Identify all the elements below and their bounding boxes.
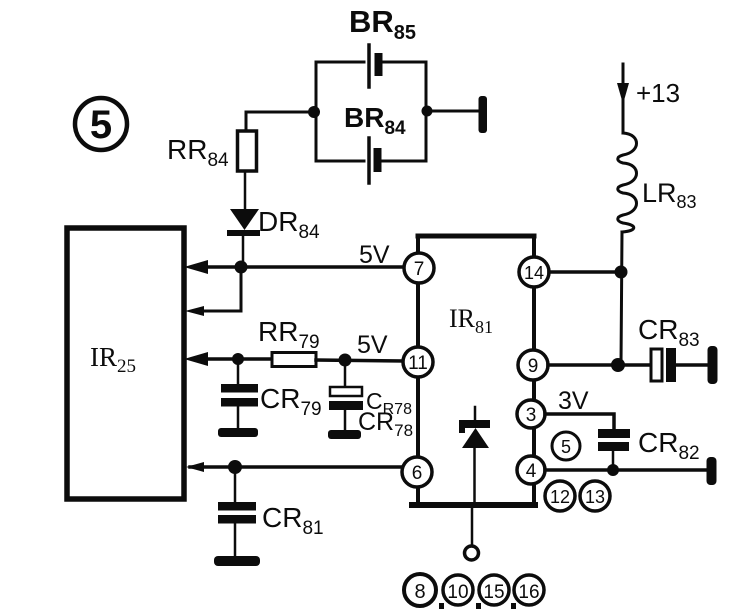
svg-text:BR84: BR84 — [344, 102, 406, 139]
svg-text:11: 11 — [408, 353, 428, 374]
IC IR25 — [67, 228, 184, 499]
wire 5V line to pin 7 — [198, 265, 404, 269]
node junction CR81 — [228, 460, 242, 474]
svg-text:CR83: CR83 — [638, 314, 700, 351]
capacitor CR79 — [221, 359, 258, 428]
terminal bar right of CR83 — [708, 346, 718, 384]
svg-text:BR85: BR85 — [349, 4, 416, 44]
battery BR85 — [369, 45, 383, 87]
wire battery loop top-left segment — [316, 61, 364, 64]
node junction CR78 — [339, 354, 352, 367]
node junction CR83 — [611, 358, 625, 372]
wire IR81 bottom tap — [471, 505, 474, 546]
node junction CR82/pin4 — [607, 464, 619, 476]
terminal bar right of pin 4 — [707, 457, 717, 485]
svg-text:3V: 3V — [558, 387, 589, 415]
svg-text:5V: 5V — [357, 331, 388, 359]
ground below CR81 — [214, 556, 260, 566]
svg-text:5: 5 — [561, 437, 571, 457]
arrow into IR25 second — [185, 306, 204, 316]
svg-text:5V: 5V — [359, 241, 390, 269]
capacitor CR83 — [651, 348, 708, 382]
circled pin note 13 — [580, 481, 610, 511]
wire DR84 to node A — [242, 236, 245, 264]
svg-text:6: 6 — [412, 463, 423, 484]
wire pin 3 to CR82 — [545, 414, 614, 429]
svg-text:9: 9 — [528, 356, 539, 377]
svg-text:8: 8 — [414, 581, 425, 603]
svg-text:RR84: RR84 — [167, 134, 229, 171]
pin 14 — [519, 257, 549, 287]
svg-text:12: 12 — [550, 487, 570, 507]
pin 9 — [518, 350, 548, 380]
svg-text:13: 13 — [585, 487, 605, 507]
resistor RR79 — [272, 353, 316, 367]
arrow into IR25 third — [184, 352, 208, 366]
capacitor CR81 — [218, 467, 256, 556]
svg-text:16: 16 — [518, 582, 539, 603]
pin 3 — [517, 400, 545, 428]
svg-text:CR82: CR82 — [638, 427, 700, 464]
svg-text:14: 14 — [524, 263, 544, 283]
node A junction on 5V wire — [235, 261, 248, 274]
wire from battery loop to RR84 — [246, 112, 314, 132]
capacitor CR78 — [329, 360, 363, 430]
svg-text:DR84: DR84 — [258, 206, 320, 243]
node junction CR79 — [232, 353, 244, 365]
inductor LR83 — [618, 133, 637, 232]
capacitor CR82 — [598, 429, 630, 470]
ground below CR79 — [218, 428, 258, 437]
IC IR81 box — [412, 236, 535, 505]
svg-text:7: 7 — [414, 259, 425, 280]
pin 7 — [404, 253, 434, 283]
circled pin note 16 — [514, 575, 544, 605]
pin 11 — [403, 347, 433, 377]
circled pin note 5 — [552, 432, 580, 460]
resistor RR84 — [238, 131, 257, 171]
arrow on +13 lead — [617, 83, 629, 104]
arrow into IR25 bottom — [186, 462, 204, 472]
supply +13 lead — [622, 64, 625, 133]
node junction pin14/supply — [615, 266, 628, 279]
svg-text:4: 4 — [526, 461, 537, 482]
wire battery loop left side — [315, 62, 318, 161]
open terminal circle — [465, 546, 479, 560]
wire battery loop bottom-right segment — [381, 160, 426, 163]
circled pin note 15 — [479, 575, 509, 605]
svg-text:3: 3 — [526, 405, 537, 426]
svg-text:10: 10 — [447, 582, 468, 603]
pin 4 — [517, 456, 545, 484]
diode DR84 — [227, 209, 260, 236]
wire pin 6 line — [190, 465, 402, 469]
terminal bar top right — [479, 96, 488, 133]
wire from battery loop to right terminal — [427, 110, 478, 113]
node battery left junction — [308, 106, 320, 118]
wire RR84 to DR84 — [244, 171, 247, 209]
comma marks between circled notes — [439, 603, 516, 609]
circled pin note 8 — [404, 574, 436, 606]
ground below CR78 — [328, 430, 361, 439]
node battery right junction — [422, 106, 433, 117]
wire pin 14 to supply node — [549, 270, 621, 274]
battery BR84 — [369, 138, 382, 183]
wire battery loop bottom-left segment — [316, 160, 364, 163]
wire battery loop right side — [425, 62, 428, 161]
wire node A down and into IR25 — [200, 267, 241, 311]
zener diode inside IR81 — [459, 407, 490, 505]
wire 5V line to pin 11 left part — [198, 357, 272, 361]
wire LR83 down to CR83 line — [621, 232, 622, 365]
circled pin note 12 — [545, 481, 575, 511]
svg-text:RR79: RR79 — [258, 316, 320, 353]
svg-text:CR79: CR79 — [260, 383, 322, 420]
arrow into IR25 upper — [184, 260, 208, 274]
svg-text:CR81: CR81 — [262, 502, 324, 539]
svg-text:5: 5 — [90, 103, 112, 147]
circled pin note 10 — [443, 575, 473, 605]
svg-text:IR81: IR81 — [449, 304, 493, 337]
svg-text:15: 15 — [483, 582, 504, 603]
wire pin 9 to CR83 — [548, 363, 651, 367]
wire RR79 to pin 11 — [316, 360, 403, 361]
wire battery loop top-right segment — [382, 61, 426, 64]
figure number 5 badge — [75, 98, 127, 150]
wire pin 4 to right terminal — [545, 468, 707, 472]
pin 6 — [402, 457, 432, 487]
svg-text:+13: +13 — [636, 78, 680, 108]
svg-text:LR83: LR83 — [642, 178, 697, 212]
